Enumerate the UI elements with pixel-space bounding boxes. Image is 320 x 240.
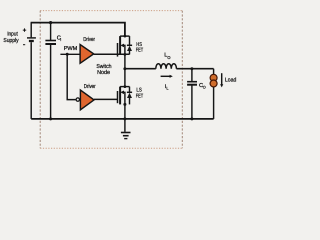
wire switch node to Q2 drain: [124, 69, 126, 87]
node CI ground dot: [49, 117, 52, 120]
node LS source ground dot: [123, 117, 126, 120]
wire output to load: [213, 69, 215, 75]
ground: [121, 119, 131, 139]
op-amp U2 low-side driver inverting: [76, 98, 79, 101]
transistor Q2 LS FET: [118, 87, 130, 105]
wire load to ground rail: [213, 87, 215, 119]
current source load symbol: [210, 74, 217, 81]
Q2 body arrow head: [120, 91, 124, 95]
Q1 body arrow head: [120, 44, 124, 48]
node Q1 drain dot: [124, 35, 127, 38]
label Input Supply: [3, 32, 18, 44]
node switch node dot: [123, 67, 126, 70]
wire ground rail: [31, 118, 213, 120]
battery minus sign: [23, 44, 25, 46]
diode D1 HS body diode: [127, 36, 132, 54]
svg-text:L: L: [166, 87, 168, 91]
wire switch node to inductor: [125, 68, 156, 70]
capacitor CI: [45, 23, 56, 119]
node Q2 drain dot: [124, 85, 127, 88]
svg-text:FET: FET: [136, 94, 144, 100]
svg-text:Driver: Driver: [83, 36, 95, 43]
wire top rail Vin: [31, 23, 125, 36]
op-amp U1 high-side driver: [80, 45, 94, 64]
svg-text:Input: Input: [7, 32, 18, 38]
svg-text:O: O: [167, 55, 170, 60]
wire driver output to LS gate: [94, 98, 118, 100]
node Q2 source dot: [123, 103, 126, 106]
diode D2 LS body diode: [127, 87, 132, 105]
node Q1 source dot: [124, 53, 127, 56]
svg-text:I: I: [60, 38, 61, 42]
svg-text:Driver: Driver: [84, 83, 96, 90]
wire driver output to HS gate (merges with bottom stub): [94, 53, 130, 55]
node PWM branch dot: [66, 53, 69, 56]
svg-text:Supply: Supply: [3, 37, 18, 44]
svg-text:FET: FET: [136, 48, 144, 54]
node output dot: [190, 67, 193, 70]
wire inductor to output: [176, 68, 213, 70]
battery plus sign: [23, 28, 26, 31]
svg-text:O: O: [203, 85, 206, 89]
inductor LO: [156, 64, 177, 69]
battery V1 input supply: [27, 23, 36, 119]
arrow load current: [221, 73, 223, 84]
svg-text:Load: Load: [225, 77, 236, 84]
svg-text:PWM: PWM: [64, 46, 78, 52]
wire Q1 source to switch node: [124, 54, 126, 68]
wire PWM to low-side driver: [67, 54, 76, 99]
arrow IL current: [161, 75, 171, 77]
wire Q2 source to ground rail: [124, 104, 126, 119]
wire PWM input: [60, 53, 80, 55]
svg-text:Node: Node: [97, 69, 110, 76]
node input cap tap dot: [49, 21, 52, 24]
transistor Q1 HS FET: [118, 36, 130, 57]
IC boundary dashed box: [40, 11, 182, 149]
svg-text:Switch: Switch: [96, 63, 111, 70]
capacitor CO: [187, 69, 197, 119]
node CO ground dot: [190, 117, 193, 120]
